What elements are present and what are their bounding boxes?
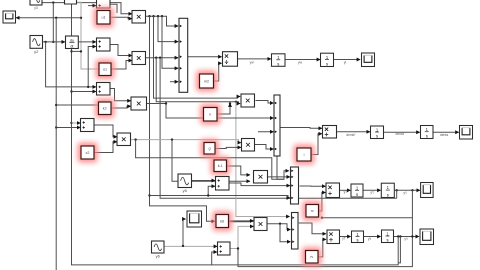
derivative block D1 (clipped at top) xyxy=(65,0,77,4)
wire bus tap to sum S4 input 2 xyxy=(72,91,96,93)
source block y5 xyxy=(178,174,192,193)
product block P8 xyxy=(242,139,255,152)
integrator block I3 xyxy=(371,126,384,139)
wire gain k2 output to product P3 input 2 xyxy=(111,106,131,108)
mux block M5 xyxy=(292,213,299,250)
wire mux M2 bottom drop joining junction xyxy=(277,156,284,179)
wire product P3 output to mux M2 input 2 xyxy=(147,102,273,118)
svg-text:s: s xyxy=(426,133,428,138)
wire product P7 output to mux M5 input 2 xyxy=(268,223,291,230)
svg-text:denta': denta' xyxy=(396,132,405,136)
svg-text:s: s xyxy=(356,238,358,243)
wire y5 output to sum S6 input 1 xyxy=(192,180,215,182)
gain block k2 xyxy=(95,99,115,119)
wire mux M4 output to divide PD3 input 1 xyxy=(300,185,326,187)
wire gain k1 output to product P6 input 1 xyxy=(227,166,250,175)
wire sum S6 output to mux M4 input 2 xyxy=(229,183,290,186)
svg-text:yw: yw xyxy=(298,60,303,64)
wire gray drop x236 to mux M5 input 1 xyxy=(236,102,290,217)
wire y3 output to product P1 input 1 xyxy=(42,1,132,13)
wire bus tap gray to sum S5 input 1 xyxy=(72,122,81,124)
wire stub mux M2 input 3 xyxy=(258,131,273,133)
wire feedback from I6 junction down to bus A xyxy=(396,190,398,198)
wire divide PD2 output to integrator I3 xyxy=(337,131,370,133)
wire stub into sum S1 xyxy=(88,5,96,7)
wire vertical bus x71 from top to bottom bus into sum S7 xyxy=(70,0,217,265)
wire tap from x56 to sum S5 input 2 xyxy=(55,126,80,128)
integrator block I2 xyxy=(321,53,334,66)
wire divide PD3 output to integrator I5 xyxy=(340,189,350,191)
wire derivative D2 output to sum S2 input 1 xyxy=(79,41,96,43)
source block y3 (clipped at top) xyxy=(30,0,42,5)
product block P3 xyxy=(131,97,147,110)
svg-text:yw': yw' xyxy=(250,60,255,64)
svg-text:s: s xyxy=(326,61,328,66)
wire y2 branch down to sum S4 input 1 xyxy=(46,42,96,87)
wire derivative D1 output elbow gray xyxy=(77,2,82,18)
svg-text:k6: k6 xyxy=(220,219,224,223)
product block P4 xyxy=(117,133,131,146)
sum block S5 xyxy=(81,119,95,132)
product block P2 xyxy=(132,52,146,65)
wire gain x2 output to product P4 input 2 xyxy=(95,142,117,153)
svg-text:yt: yt xyxy=(344,60,347,64)
svg-text:y't': y't' xyxy=(344,190,348,194)
wire into scope SC1 xyxy=(16,17,81,19)
wire stub into mux M1 input 5 xyxy=(170,81,178,83)
sum block S2 xyxy=(97,38,111,51)
source block y2 xyxy=(30,36,43,54)
wire riser from y2 line to sum S2 input 2 xyxy=(87,47,96,89)
svg-text:u1: u1 xyxy=(103,68,107,72)
source block y6 xyxy=(152,241,165,259)
sum block S4 xyxy=(97,83,111,96)
wire bus tap to gray line x81 xyxy=(72,50,83,52)
wire product P8 output to mux M2 input 4 xyxy=(255,145,273,150)
product-divide block PD4 xyxy=(327,230,340,244)
mux block M4 xyxy=(291,167,299,204)
wire gain i output to divide PD2 input 2 xyxy=(312,134,322,155)
wire bus B y195 to mux M4 input 4 xyxy=(150,196,290,198)
svg-text:denta'': denta'' xyxy=(346,133,356,137)
wire y2 output to derivative D2 xyxy=(43,41,65,43)
wire drop x160 to long bus A feedback xyxy=(160,58,397,199)
wire tap to gain k2 input xyxy=(56,104,98,106)
wire mux M5 output to divide PD4 input 1 xyxy=(299,223,326,234)
wire integrator I4 output to scope SC3 xyxy=(433,131,459,133)
integrator block I6 xyxy=(381,183,394,197)
scope SC2 top right xyxy=(362,53,375,67)
wire sum S1 output to product P1 xyxy=(110,4,117,13)
wire product P5 output to mux M2 input 1 xyxy=(256,101,274,104)
gain block k1 xyxy=(211,157,231,176)
wire sum S4 output to product P3 input 1 xyxy=(111,89,131,101)
svg-text:g: g xyxy=(208,147,210,151)
product block P6 xyxy=(254,171,268,184)
wire bus riser into sum S6 input 2 xyxy=(207,186,215,197)
svg-text:s: s xyxy=(386,238,388,243)
svg-text:rv: rv xyxy=(310,255,313,259)
svg-text:s: s xyxy=(387,192,389,197)
svg-text:n: n xyxy=(209,113,211,117)
gain block i xyxy=(294,145,315,165)
wire integrator I3 output to integrator I4 xyxy=(384,131,420,133)
integrator block I7 xyxy=(352,231,364,243)
wire mux M2 output to divide PD2 input 1 xyxy=(280,127,322,130)
mux block M2 xyxy=(274,95,280,156)
wire feedback from I6 junction down right to bottom bus B xyxy=(238,190,412,266)
wire drop x162 to mux M1 input 4 xyxy=(162,16,178,68)
wire drop x153 to bus feeding product P5 input 1 xyxy=(154,16,241,98)
wire gain u2 output to product P2 input 2 xyxy=(111,61,132,70)
integrator block I4 xyxy=(421,126,434,139)
gain block u2 xyxy=(96,60,115,80)
scope SC4 xyxy=(421,183,434,198)
product block P5 xyxy=(241,94,255,107)
wire feedback I8 down joining bottom bus left xyxy=(212,237,399,265)
scope SC3 right xyxy=(460,126,473,140)
sum block S6 xyxy=(216,177,230,191)
svg-text:denta: denta xyxy=(440,133,448,137)
svg-text:u1: u1 xyxy=(101,16,105,20)
gain block m2 xyxy=(196,71,217,92)
wire drop x158 to mux M1 input 2 xyxy=(158,16,178,41)
wire integrator I7 output to integrator I8 xyxy=(364,236,381,238)
product-divide block PD2 xyxy=(323,126,337,139)
integrator block I1 xyxy=(272,54,286,67)
scope SC1 xyxy=(3,11,16,23)
scope SC6 bottom right xyxy=(420,229,434,245)
gain block u1 xyxy=(94,7,114,28)
svg-text:x2: x2 xyxy=(86,151,90,155)
wire sum S5 output to product P4 input 1 xyxy=(95,125,117,137)
scope SC5 middle xyxy=(187,211,202,227)
gain block n xyxy=(200,104,221,125)
integrator block I8 xyxy=(382,230,394,243)
gain block rv2 xyxy=(302,247,322,267)
svg-text:y't: y't xyxy=(404,237,407,241)
mux block M1 xyxy=(179,18,188,92)
wire gain n output joins product P5 input 2 bus xyxy=(218,104,231,115)
svg-text:dt: dt xyxy=(70,45,73,49)
product-divide block PD1 xyxy=(223,52,238,66)
wire divide PD4 output to integrator I7 xyxy=(340,236,351,238)
gain block g xyxy=(201,139,219,158)
wire integrator I8 output to scope SC6 xyxy=(394,235,419,237)
gain block x2 xyxy=(78,143,98,163)
wire drop x149 long to gain k6 input xyxy=(148,16,215,221)
wire gain u1 output to product P1 input 2 xyxy=(111,17,132,18)
wire drop x135 bus y154 into mux M4 input 1 xyxy=(136,140,289,180)
wire integrator I5 output to integrator I6 xyxy=(364,189,381,191)
wire integrator I2 output to scope SC2 xyxy=(334,59,361,61)
product block P7 xyxy=(254,218,267,231)
svg-text:m2: m2 xyxy=(204,79,209,83)
wire gain k6 thick output to product P7 input 1 xyxy=(229,220,253,222)
wire gain m2 output to divide PD1 input 2 xyxy=(214,63,222,81)
sum block S7 xyxy=(218,242,231,255)
svg-text:k2: k2 xyxy=(103,107,107,111)
wire product P1 output to mux M1 input 1 xyxy=(146,15,178,26)
wire vertical bus x56 to bottom edge xyxy=(55,18,57,270)
svg-text:y't: y't xyxy=(370,191,373,195)
svg-text:y't: y't xyxy=(403,191,406,195)
wire gain g output to product P8 input 2 xyxy=(215,147,241,148)
wire product P4 output gray to product P8 input 1 xyxy=(131,138,241,142)
wire product P2 output to mux M1 input 3 xyxy=(146,57,178,59)
wire second feedback vertical x400 xyxy=(398,237,400,263)
gain block k6 xyxy=(213,211,233,231)
svg-text:k-1: k-1 xyxy=(218,164,223,168)
wire integrator I1 output to integrator I2 xyxy=(285,59,320,61)
wire y6 output to sum S7 input 1 xyxy=(165,245,218,247)
wire gray into gain u2 input xyxy=(80,17,99,69)
derivative block D2 xyxy=(66,36,79,49)
wire gain rv2 output to divide PD4 input 2 xyxy=(318,239,326,257)
wire integrator I6 output to scope SC4 xyxy=(395,189,420,191)
wire mux M1 output to divide PD1 input 1 xyxy=(188,56,222,58)
wire gain rv1 output to divide PD3 input 2 xyxy=(317,193,325,219)
svg-text:y3: y3 xyxy=(34,6,38,10)
svg-text:rv: rv xyxy=(311,209,314,213)
wire divide PD1 output to integrator I1 xyxy=(238,58,271,60)
gain block rv1 xyxy=(303,201,323,221)
wire feedback bus y217 from x412 xyxy=(322,217,413,219)
svg-text:y't: y't xyxy=(368,237,371,241)
svg-text:s: s xyxy=(277,61,279,66)
product-divide block PD3 xyxy=(326,183,340,198)
wire y6 output junction up to scope SC5 xyxy=(183,219,186,245)
integrator block I5 xyxy=(351,184,363,197)
wire drop x280 to mux M5 input 3 xyxy=(280,224,290,242)
wire sum S2 output to product P2 input 1 xyxy=(111,45,132,56)
wire drop x172 to product P6 input 2 xyxy=(172,140,250,182)
wire y3 branch down x53 to y2 line junction xyxy=(52,3,54,44)
sum block S1 (clipped at top) xyxy=(97,0,111,8)
wire drop x156 to bus feeding product P5 input 2 xyxy=(156,58,240,105)
svg-text:s: s xyxy=(376,134,378,139)
wire sum S7 output up to product P7 input 2 xyxy=(230,226,253,249)
product block P1 xyxy=(132,11,146,24)
svg-text:y't': y't' xyxy=(342,237,346,241)
svg-text:s: s xyxy=(356,192,358,197)
wire product P6 output to mux M4 input 2 xyxy=(268,176,290,178)
